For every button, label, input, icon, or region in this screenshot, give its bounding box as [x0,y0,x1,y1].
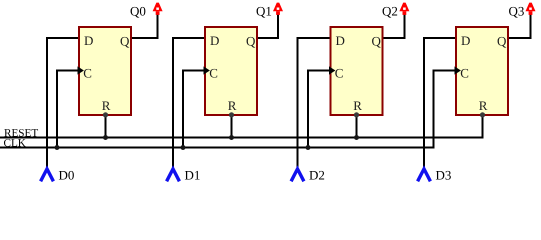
wire CLK net (horizontal rail, elbows up to U4 C pin) [0,71,455,148]
svg-text:D: D [336,33,345,48]
output connector Q0 (red arrow) [153,3,163,15]
svg-text:D: D [461,33,470,48]
junction on CLK rail at U3 C branch [306,145,311,150]
wire D2 net: chevron up to U3 D pin [298,38,330,169]
flip-flop U2 body [205,27,257,115]
svg-text:D3: D3 [436,167,452,182]
wire U4 R pin to RESET rail [482,116,484,138]
svg-text:R: R [353,98,362,113]
output connector Q1 (red arrow) [273,3,283,15]
flip-flop U3 body [331,27,383,115]
wire D3 net: chevron up to U4 D pin [424,38,455,169]
junction at U4 R pin (box bottom) [480,112,485,117]
wire Q0 net: U1 Q pin to output arrow [132,14,158,38]
wire Q2 net: U3 Q pin to output arrow [384,14,405,38]
wire U2 R pin to RESET rail [231,116,233,138]
svg-text:Q: Q [372,33,382,48]
svg-text:C: C [460,65,469,80]
clock wedge U1 [78,66,84,74]
junction on RESET rail at U3 R branch [354,135,359,140]
wire Q1 net: U2 Q pin to output arrow [258,14,278,38]
svg-text:R: R [228,98,237,113]
input connector D0 (blue chevron) [41,169,54,181]
svg-text:Q: Q [246,33,256,48]
svg-text:D: D [84,33,93,48]
input connector D2 (blue chevron) [291,169,304,181]
svg-text:D1: D1 [185,167,201,182]
svg-text:C: C [83,65,92,80]
wire RESET net (horizontal rail, elbows up to U4 R pin) [0,116,483,138]
svg-text:Q: Q [497,33,507,48]
svg-text:C: C [209,65,218,80]
junction at U1 R pin (box bottom) [103,112,108,117]
output connector Q3 (red arrow) [526,3,536,15]
svg-text:D0: D0 [59,167,75,182]
wire U3 R pin to RESET rail [356,116,358,138]
junction on CLK rail at U2 C branch [181,145,186,150]
wire U2 C pin to CLK rail [183,71,204,148]
clock wedge U2 [204,66,210,74]
svg-text:D: D [210,33,219,48]
flip-flop U1 body [79,27,131,115]
svg-text:CLK: CLK [4,138,26,150]
wire U3 C pin to CLK rail [308,71,330,148]
flip-flop U4 body [456,27,508,115]
svg-text:Q: Q [120,33,130,48]
junction on RESET rail at U2 R branch [229,135,234,140]
svg-text:Q3: Q3 [509,4,525,19]
svg-text:Q2: Q2 [382,4,398,19]
wire D1 net: chevron up to U2 D pin [173,38,204,169]
wire U1 R pin to RESET rail [105,116,107,138]
wire D0 net: chevron up to U1 D pin [47,38,78,169]
clock wedge U4 [455,66,461,74]
input connector D1 (blue chevron) [167,169,180,181]
svg-text:R: R [102,98,111,113]
svg-text:C: C [335,65,344,80]
svg-text:Q0: Q0 [130,4,146,19]
junction at U3 R pin (box bottom) [354,112,359,117]
output connector Q2 (red arrow) [399,3,409,15]
svg-text:Q1: Q1 [256,4,272,19]
junction on RESET rail at U1 R branch [103,135,108,140]
wire U1 C pin to CLK rail [57,71,78,148]
svg-text:D2: D2 [309,167,325,182]
junction at U2 R pin (box bottom) [229,112,234,117]
clock wedge U3 [329,66,335,74]
svg-text:R: R [479,98,488,113]
input connector D3 (blue chevron) [418,169,431,181]
junction on CLK rail at U1 C branch [55,145,60,150]
wire Q3 net: U4 Q pin to output arrow [509,14,531,38]
